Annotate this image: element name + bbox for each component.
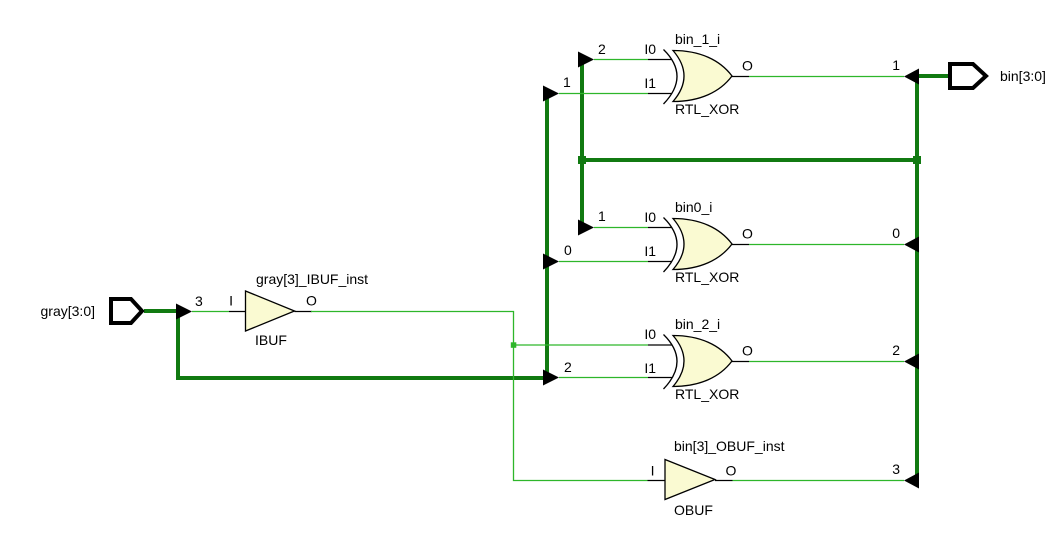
wire: bin_2_i output net <box>732 361 904 363</box>
svg-text:I0: I0 <box>644 209 656 225</box>
svg-text:3: 3 <box>195 293 203 309</box>
svg-text:O: O <box>726 463 737 479</box>
gate U3 bin_2_i RTL_XOR <box>644 316 753 402</box>
buffer U_IBUF gray[3]_IBUF_inst <box>229 271 368 348</box>
svg-text:I: I <box>229 293 233 309</box>
port: input port gray[3:0] <box>41 299 142 323</box>
svg-text:gray[3]_IBUF_inst: gray[3]_IBUF_inst <box>256 271 368 287</box>
svg-text:I: I <box>651 463 655 479</box>
port: output port bin[3:0] <box>950 64 1046 88</box>
wire: IBUF output net to OBUF input <box>295 312 666 481</box>
svg-text:bin_2_i: bin_2_i <box>675 316 720 332</box>
node: tap arrow 1 on right bus (bin_1_i O) <box>892 57 919 85</box>
svg-text:O: O <box>742 58 753 74</box>
node: tap arrow 3 on input bus <box>176 293 203 320</box>
svg-text:0: 0 <box>892 225 900 241</box>
svg-text:O: O <box>742 343 753 359</box>
svg-text:2: 2 <box>892 342 900 358</box>
wire: bin0_i output net <box>732 244 904 246</box>
svg-text:RTL_XOR: RTL_XOR <box>675 386 739 402</box>
wire: tap2 to bin_1_i I0 <box>594 59 672 61</box>
svg-text:1: 1 <box>598 208 606 224</box>
wire: second vertical bus <box>580 60 584 228</box>
node: tap arrow 0 on right bus (bin0_i O) <box>892 225 919 253</box>
wire: branch to bin_2_i I0 <box>514 344 673 346</box>
svg-text:RTL_XOR: RTL_XOR <box>675 269 739 285</box>
wire: bin_1_i output net <box>732 76 904 78</box>
svg-text:bin0_i: bin0_i <box>675 199 712 215</box>
wire: tap1 to bin0_i I0 <box>594 227 672 229</box>
svg-text:I1: I1 <box>644 75 656 91</box>
wire: thick gray bus from input port down and right to left vertical bus <box>144 94 547 379</box>
wire: OBUF output net <box>715 480 904 482</box>
buffer U4 bin[3]_OBUF_inst <box>651 438 785 518</box>
svg-text:O: O <box>306 293 317 309</box>
node: tap arrow 3 on right bus (OBUF O) <box>892 461 919 489</box>
gate U2 bin0_i RTL_XOR <box>644 199 753 285</box>
svg-text:I0: I0 <box>644 326 656 342</box>
svg-text:bin[3]_OBUF_inst: bin[3]_OBUF_inst <box>674 438 785 454</box>
svg-text:bin_1_i: bin_1_i <box>675 31 720 47</box>
gate U1 bin_1_i RTL_XOR <box>644 31 753 117</box>
junction: net dot on IBUF output net <box>511 342 517 348</box>
svg-text:3: 3 <box>892 461 900 477</box>
svg-text:2: 2 <box>598 41 606 57</box>
svg-text:OBUF: OBUF <box>674 502 713 518</box>
svg-text:RTL_XOR: RTL_XOR <box>675 101 739 117</box>
node: tap arrow 2 on second bus <box>578 41 606 68</box>
wire: middle horizontal bus <box>582 158 917 162</box>
svg-text:2: 2 <box>564 359 572 375</box>
svg-text:O: O <box>742 226 753 242</box>
svg-text:I1: I1 <box>644 243 656 259</box>
svg-text:1: 1 <box>563 74 571 90</box>
node: tap arrow 2 on left bus (bin_2_i I1) <box>543 359 572 386</box>
svg-text:I1: I1 <box>644 360 656 376</box>
wire: net tap3 to IBUF input <box>192 311 246 313</box>
wire: tap0 to bin0_i I1 <box>559 261 672 263</box>
node: tap arrow 1 on second bus (bin0_i I0) <box>578 208 606 236</box>
wire: tap2 to bin_2_i I1 <box>559 377 672 379</box>
junction: bus dot at right bus / middle bus <box>913 156 921 164</box>
node: tap arrow 1 on left bus <box>543 74 571 102</box>
node: tap arrow 0 on left bus (bin0_i I1) <box>543 242 572 270</box>
svg-text:0: 0 <box>564 242 572 258</box>
junction: bus dot at second bus / middle bus <box>578 156 586 164</box>
wire: tap1 to bin_1_i I1 <box>559 93 672 95</box>
svg-text:bin[3:0]: bin[3:0] <box>1000 68 1046 84</box>
wire: right vertical bus to output port <box>917 76 950 481</box>
svg-text:gray[3:0]: gray[3:0] <box>41 303 95 319</box>
node: tap arrow 2 on right bus (bin_2_i O) <box>892 342 919 370</box>
svg-text:IBUF: IBUF <box>255 332 287 348</box>
svg-text:I0: I0 <box>644 41 656 57</box>
svg-text:1: 1 <box>892 57 900 73</box>
